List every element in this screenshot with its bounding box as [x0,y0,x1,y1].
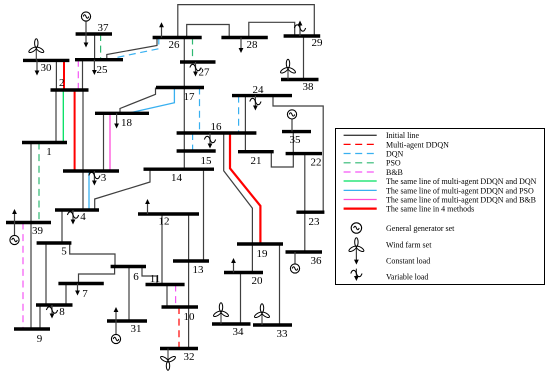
variable load at bus 4 [67,210,78,225]
bus 35 busbar [282,130,311,133]
svg-text:16: 16 [211,121,223,133]
bus 1 busbar [22,141,67,144]
legend entry: The same line of multi-agent DDQN and B&B [344,199,377,201]
line 17-16 DQN (cyan dashed) [199,88,201,134]
legend icon: variable load [351,269,362,281]
bus 8 busbar [36,303,73,306]
wire 12-13 [188,214,190,261]
general generator set at bus 39 [10,235,19,244]
wire 10-32 [188,307,190,349]
constant load at bus 37 [84,34,89,48]
svg-text:3: 3 [101,172,107,184]
svg-text:18: 18 [121,117,133,129]
generator G37 stem [85,21,87,34]
bus 20 busbar [224,271,263,274]
bus 4 busbar [55,208,99,211]
svg-text:Initial line: Initial line [386,131,420,140]
general generator set at bus 31 [111,334,120,343]
wire 18-3 [103,114,105,171]
wire 19-33 [279,244,281,325]
general generator set at bus 36 [290,264,299,273]
wire 27-17 [183,62,185,88]
svg-text:39: 39 [32,225,44,237]
general generator set at bus 37 [81,12,90,21]
wire 28-29 [249,22,295,37]
svg-text:DQN: DQN [386,149,404,158]
line 24-16 DQN (cyan dashed) [238,96,240,133]
svg-text:Constant load: Constant load [386,256,430,265]
wire 24-23 [273,96,323,213]
wire 16-15 [183,133,185,151]
wire 25-2 [82,60,84,90]
svg-text:21: 21 [251,155,262,167]
line 37-25 PSO (green dashed) [100,34,102,60]
legend entry: The same line of multi-agent DDQN and DQN [344,180,377,182]
bus 38 busbar [281,78,319,81]
wire 15-14 [183,151,185,169]
line 18-3 same of DDQN and B&B (magenta solid) [109,114,111,171]
bus 17 busbar [156,86,204,89]
wire 26-28 [187,25,230,38]
wire 3-4 [82,171,84,210]
svg-text:2: 2 [59,77,65,89]
svg-text:9: 9 [37,333,43,345]
constant load at bus 39 [12,209,17,223]
general generator set at bus 35 [287,110,296,119]
bus 27 busbar [180,60,216,63]
wire 21-22 [271,152,293,167]
svg-text:17: 17 [184,91,196,103]
svg-text:32: 32 [184,351,195,363]
legend wind farm symbol [348,238,365,253]
svg-text:14: 14 [171,172,183,184]
svg-text:15: 15 [201,155,213,167]
wind farm set at bus 38 [280,59,297,79]
svg-text:Variable load: Variable load [386,272,428,281]
svg-text:33: 33 [277,328,289,340]
wire 22-35 [292,132,294,154]
svg-text:7: 7 [82,288,88,300]
svg-text:24: 24 [253,84,265,96]
constant load at bus 12 [145,199,150,214]
wire 16-21 [244,133,246,152]
generator G39 stem [14,223,16,236]
wire 8-9 [39,305,41,329]
variable load at bus 29 [294,21,305,37]
bus 32 busbar [160,347,198,350]
wire 29-38 [303,36,305,80]
line 3-4 same of DDQN and PSO (cyan solid) [88,171,90,210]
bus 11 busbar [146,283,185,286]
wire 26-29 [178,5,314,38]
line 1-39 PSO (green dashed) [38,143,40,223]
wire 30-2 [55,60,57,90]
variable load at bus 24 [250,96,261,111]
bus 28 busbar [221,36,267,39]
svg-text:13: 13 [193,264,205,276]
svg-text:B&B: B&B [386,168,403,177]
legend entry: Multi-agent DDQN [344,143,377,145]
svg-text:20: 20 [252,275,264,287]
svg-text:34: 34 [233,326,245,338]
svg-text:28: 28 [247,39,259,51]
svg-text:19: 19 [257,248,269,260]
wire 19-20 [251,244,253,273]
bus 39 busbar [6,221,51,224]
line 2-1 same of DDQN and DQN (green solid) [62,90,64,143]
bus 30 busbar [23,59,69,62]
line 11-10 B&B (magenta dashed) [175,285,177,308]
variable load at bus 3 [89,171,100,186]
wire 13-10 [188,261,190,307]
wire 5-6 [70,243,115,267]
bus 29 busbar [284,34,321,37]
wire 37-25 [94,34,96,60]
line 39-9 B&B (magenta dashed) [22,223,24,330]
line 2-3 same in 4 methods (red solid) [74,90,76,171]
svg-text:General generator set: General generator set [386,224,455,233]
wire 17-18 [120,88,156,114]
svg-text:Multi-agent DDQN: Multi-agent DDQN [386,140,449,149]
wire 14-13 [203,169,205,261]
svg-text:11: 11 [150,273,161,285]
bus 15 busbar [177,149,216,152]
wind farm set at bus 33 [254,304,271,325]
bus 37 busbar [76,32,112,35]
bus 19 busbar [237,242,283,245]
generator G36 stem [294,252,296,264]
legend generator symbol [351,223,361,233]
bus 24 busbar [232,94,292,97]
wind farm set at bus 32 [160,349,177,371]
wire 24-16 [244,96,246,133]
svg-text:10: 10 [184,311,196,323]
line 10-32 multi-agent DDQN (red dashed) [178,307,180,349]
bus 31 busbar [107,319,147,322]
wire 17-16 [183,88,185,134]
variable load at bus 16 [204,133,215,149]
wire 4-5 [61,210,63,243]
bus 7 busbar [58,282,103,285]
bus 33 busbar [253,323,292,326]
svg-text:30: 30 [41,62,53,74]
wire 11-10 [166,285,168,308]
svg-text:The same line of multi-agent D: The same line of multi-agent DDQN and B&… [386,195,536,204]
svg-text:23: 23 [309,216,321,228]
legend icon: constant load [354,251,359,264]
wire 23-36 [304,212,306,252]
svg-text:Wind farm set: Wind farm set [386,240,432,249]
wire 12-11 [161,214,163,285]
wind farm set at bus 30 [28,39,45,61]
wire 39-9 [30,223,32,330]
wire 7-8 [65,284,67,306]
bus 26 busbar [153,36,202,39]
wire 4-14 [95,169,150,210]
bus 34 busbar [212,322,251,325]
wire 25-26 [107,38,157,60]
legend entry: The same line in 4 methods [344,208,377,210]
generator G35 stem [291,119,293,132]
svg-text:22: 22 [311,157,322,169]
svg-text:5: 5 [61,246,67,258]
legend entry: Initial line [344,134,377,136]
svg-text:The same line of multi-agent D: The same line of multi-agent DDQN and DQ… [386,177,537,186]
bus 9 busbar [14,327,50,330]
svg-text:35: 35 [290,134,302,146]
svg-text:31: 31 [131,323,142,335]
constant load at bus 26 [159,22,164,37]
legend entry: B&B [344,171,377,173]
constant load at bus 18 [114,113,119,128]
constant load at bus 20 [231,258,236,273]
svg-text:29: 29 [312,37,324,49]
svg-text:6: 6 [133,271,139,283]
line 25-2 B&B (magenta dashed) [77,60,79,90]
wire 16-19 [224,133,253,244]
bus 21 busbar [238,150,274,153]
bus 2 busbar [51,88,89,91]
constant load at bus 28 [239,38,244,54]
svg-text:The same line in 4 methods: The same line in 4 methods [386,205,474,214]
legend entry: The same line of multi-agent DDQN and PSO [344,189,377,191]
bus 23 busbar [296,210,324,213]
wire 6-7 [79,267,115,284]
bus 18 busbar [95,112,149,115]
constant load at bus 25 [92,60,97,75]
bus 5 busbar [37,241,72,244]
bus 3 busbar [63,169,119,172]
legend box [336,129,545,285]
svg-text:PSO: PSO [386,159,401,168]
bus 12 busbar [138,212,199,215]
wire 5-8 [45,243,47,305]
wire 2-3 [82,90,84,171]
bus 6 busbar [111,265,146,268]
generator G31 stem [115,321,117,335]
bus 16 busbar [177,131,257,134]
legend entry: PSO [344,162,377,164]
svg-text:37: 37 [98,22,110,34]
svg-text:1: 1 [46,146,52,158]
wire 1-39 [30,143,32,223]
svg-text:38: 38 [303,81,315,93]
bus 10 busbar [162,305,199,308]
wire 22-23 [304,154,306,213]
variable load at bus 8 [46,305,57,319]
constant load at bus 31 [114,307,119,321]
svg-text:4: 4 [80,211,86,223]
wind farm set at bus 34 [213,303,230,324]
svg-text:12: 12 [159,216,170,228]
wire 20-34 [240,273,242,325]
svg-text:36: 36 [311,255,323,267]
svg-text:27: 27 [199,67,211,79]
bus 14 busbar [144,167,215,170]
wire 6-11 [142,267,157,285]
svg-text:8: 8 [59,306,65,318]
line 16-15 DQN (cyan dashed) [192,133,194,151]
line 30-2 same in 4 methods (red solid) [63,60,65,90]
line 16-19 same in 4 methods (red solid) [230,133,260,244]
bus 36 busbar [286,250,323,253]
svg-text:25: 25 [97,64,109,76]
svg-text:26: 26 [169,39,181,51]
bus 22 busbar [286,152,322,155]
line 17-18 same of DDQN and PSO (cyan solid) [128,88,174,114]
line 25-26 DQN (cyan dashed) [113,38,159,60]
wire 2-1 [55,90,57,143]
svg-text:The same line of multi-agent D: The same line of multi-agent DDQN and PS… [386,186,534,195]
line 26-27 PSO (green dashed) [192,38,194,63]
constant load at bus 7 [75,284,80,296]
bus 25 busbar [75,58,123,61]
wire 26-27 [183,38,185,63]
legend entry: DQN [344,153,377,155]
wire 6-31 [128,267,130,322]
variable load at bus 27 [190,62,201,77]
bus 13 busbar [173,259,209,262]
constant load at bus 30 [35,60,40,75]
